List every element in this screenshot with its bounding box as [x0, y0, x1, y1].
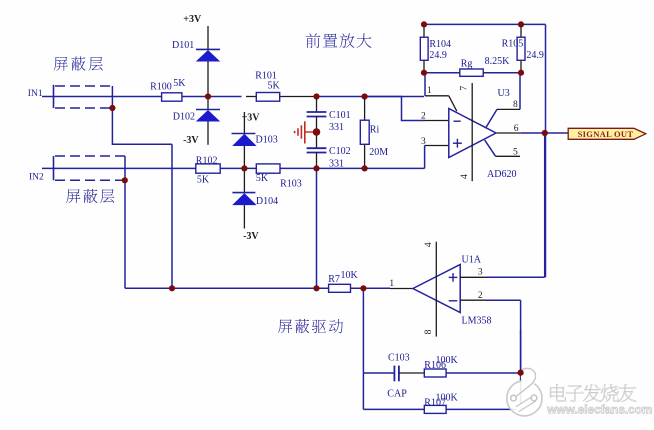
- svg-text:LM358: LM358: [462, 316, 492, 327]
- svg-text:1: 1: [389, 279, 394, 289]
- svg-text:U1A: U1A: [462, 255, 482, 266]
- svg-text:+3V: +3V: [183, 14, 202, 25]
- svg-text:2: 2: [421, 112, 426, 122]
- svg-text:-3V: -3V: [243, 231, 259, 242]
- svg-text:R7: R7: [328, 274, 340, 285]
- svg-text:U3: U3: [498, 88, 510, 99]
- svg-text:AD620: AD620: [487, 169, 516, 180]
- svg-text:331: 331: [329, 122, 344, 133]
- svg-text:5K: 5K: [197, 174, 210, 185]
- svg-text:1: 1: [427, 86, 432, 96]
- svg-text:D101: D101: [172, 40, 194, 51]
- svg-text:R100: R100: [150, 82, 172, 93]
- svg-text:20M: 20M: [369, 147, 388, 158]
- svg-text:+3V: +3V: [242, 112, 261, 123]
- svg-text:C101: C101: [329, 110, 351, 121]
- svg-text:8: 8: [424, 329, 434, 334]
- svg-text:Ri: Ri: [370, 125, 380, 136]
- svg-text:2: 2: [478, 291, 483, 301]
- svg-text:3: 3: [421, 137, 426, 147]
- svg-text:24.9: 24.9: [429, 50, 447, 61]
- svg-text:8: 8: [513, 100, 518, 110]
- svg-text:6: 6: [514, 124, 519, 134]
- svg-text:Rg: Rg: [461, 58, 473, 69]
- svg-text:100K: 100K: [436, 355, 459, 366]
- svg-text:www.elecfans.com: www.elecfans.com: [546, 403, 652, 417]
- svg-text:IN2: IN2: [29, 173, 44, 183]
- svg-text:331: 331: [329, 158, 344, 169]
- svg-text:-3V: -3V: [183, 135, 199, 146]
- svg-text:4: 4: [460, 174, 470, 179]
- svg-text:D102: D102: [173, 112, 195, 123]
- svg-text:D103: D103: [256, 135, 278, 146]
- svg-text:5K: 5K: [173, 78, 186, 89]
- svg-text:SIGNAL OUT: SIGNAL OUT: [578, 129, 634, 139]
- svg-text:4: 4: [424, 242, 434, 247]
- svg-text:R102: R102: [196, 155, 218, 166]
- svg-text:100K: 100K: [436, 392, 459, 403]
- svg-text:5: 5: [513, 148, 518, 158]
- svg-text:R104: R104: [429, 39, 451, 50]
- svg-text:D104: D104: [256, 196, 278, 207]
- svg-text:5K: 5K: [256, 173, 269, 184]
- svg-text:CAP: CAP: [387, 389, 407, 400]
- svg-text:IN1: IN1: [28, 89, 43, 99]
- svg-text:8.25K: 8.25K: [485, 56, 511, 67]
- svg-text:C102: C102: [329, 146, 351, 157]
- svg-text:R105: R105: [502, 39, 524, 50]
- svg-text:24.9: 24.9: [526, 50, 544, 61]
- svg-text:5K: 5K: [268, 81, 281, 92]
- svg-text:C103: C103: [388, 352, 410, 363]
- svg-text:7: 7: [460, 86, 470, 91]
- svg-text:R103: R103: [280, 179, 302, 190]
- svg-text:3: 3: [478, 268, 483, 278]
- svg-text:10K: 10K: [341, 270, 359, 281]
